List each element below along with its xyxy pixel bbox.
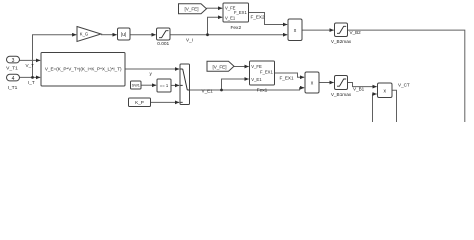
svg-text:F_EX1: F_EX1 bbox=[234, 10, 247, 15]
svg-text:V_T: V_T bbox=[26, 63, 35, 68]
svg-text:y: y bbox=[150, 71, 153, 76]
svg-text:I_T: I_T bbox=[28, 80, 35, 85]
svg-text:V_E1: V_E1 bbox=[202, 89, 214, 94]
svg-text:F_EX1: F_EX1 bbox=[260, 69, 273, 74]
svg-text:3: 3 bbox=[12, 58, 15, 64]
svg-text:V_E1: V_E1 bbox=[251, 77, 262, 82]
svg-text:F_EX1: F_EX1 bbox=[280, 75, 294, 80]
svg-text:|u|: |u| bbox=[121, 32, 126, 38]
svg-text:V_B2max: V_B2max bbox=[331, 39, 352, 44]
svg-text:V_FE: V_FE bbox=[251, 64, 262, 69]
svg-text:V_CT: V_CT bbox=[398, 83, 410, 88]
svg-text:F_EX2: F_EX2 bbox=[251, 14, 265, 19]
svg-text:== 1: == 1 bbox=[160, 83, 169, 88]
svg-text:V_T1: V_T1 bbox=[6, 65, 18, 71]
svg-text:V_B1: V_B1 bbox=[353, 86, 365, 91]
svg-text:V_B2: V_B2 bbox=[350, 30, 362, 35]
svg-text:V_B1max: V_B1max bbox=[331, 92, 352, 97]
svg-text:[V_FE]: [V_FE] bbox=[184, 7, 198, 12]
svg-text:I_T1: I_T1 bbox=[8, 85, 18, 91]
svg-text:0.001: 0.001 bbox=[157, 41, 169, 47]
svg-text:V_I: V_I bbox=[186, 38, 193, 43]
svg-text:4: 4 bbox=[12, 76, 15, 82]
svg-text:SW1: SW1 bbox=[132, 84, 140, 88]
svg-text:V_E=(K_P*V_T+j(K_I+K_P*X_L)*I_: V_E=(K_P*V_T+j(K_I+K_P*X_L)*I_T) bbox=[45, 67, 122, 72]
svg-text:Fex2: Fex2 bbox=[230, 25, 241, 31]
svg-text:V_E1: V_E1 bbox=[225, 16, 236, 21]
svg-text:Fex1: Fex1 bbox=[257, 87, 268, 93]
svg-text:K_P: K_P bbox=[135, 100, 144, 105]
svg-text:K_G: K_G bbox=[80, 32, 88, 37]
svg-text:[V_FE]: [V_FE] bbox=[212, 64, 226, 69]
